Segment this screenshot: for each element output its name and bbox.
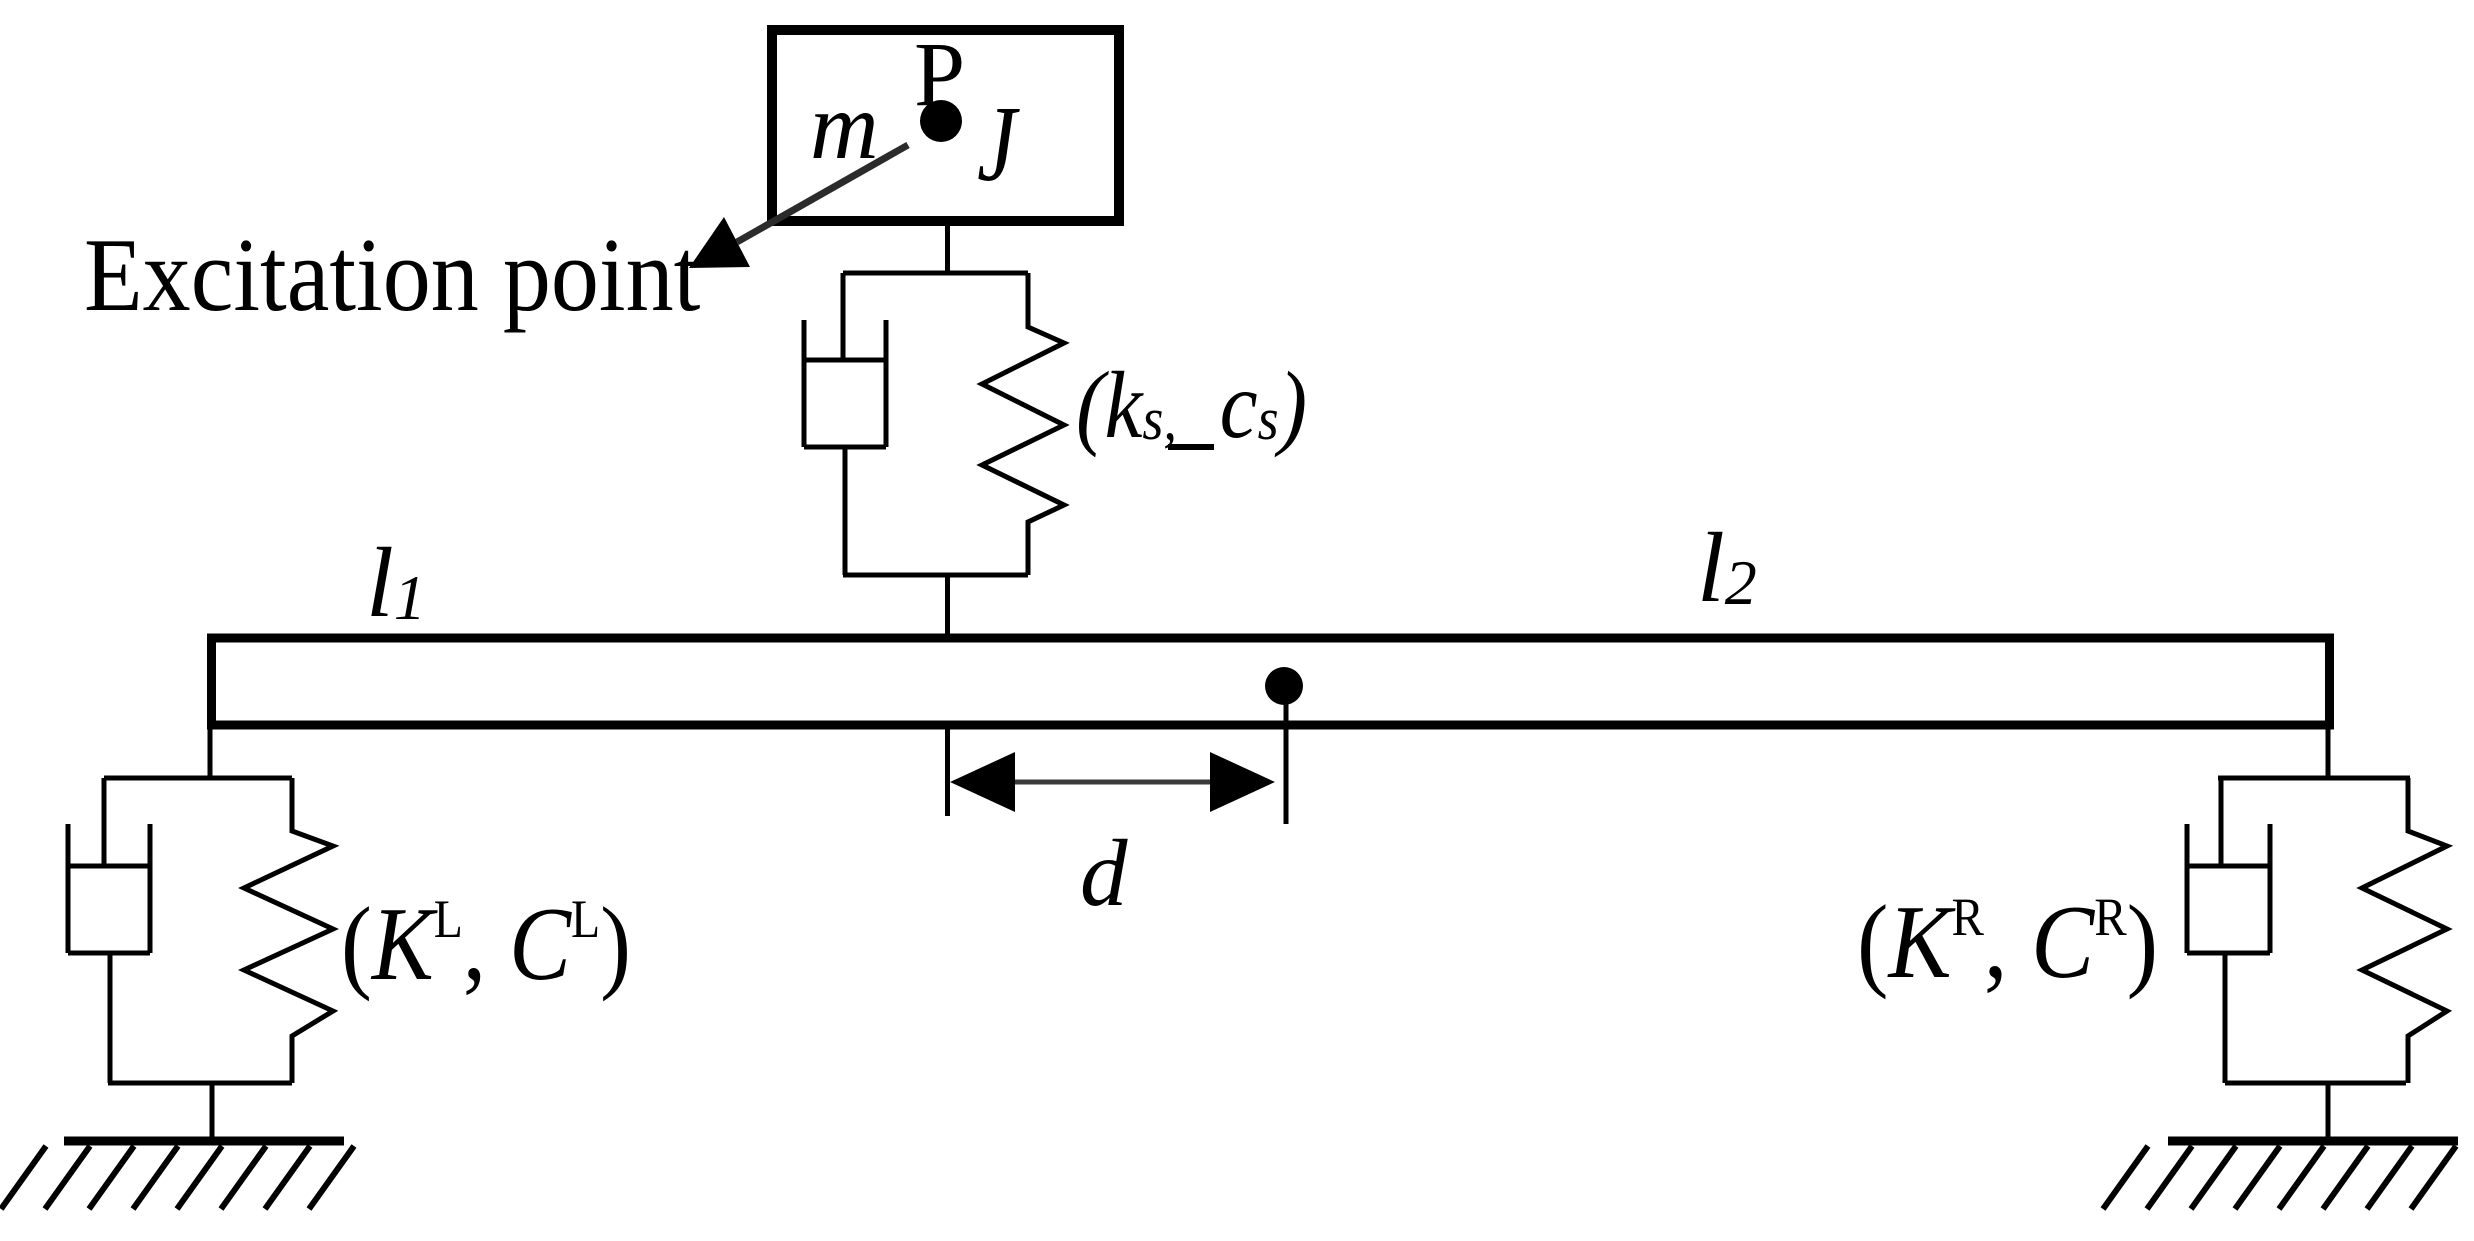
svg-text:P: P <box>914 23 965 125</box>
svg-text:m: m <box>810 73 879 179</box>
svg-text:d: d <box>1080 820 1128 926</box>
svg-text:J: J <box>977 85 1020 204</box>
svg-text:Excitation point: Excitation point <box>84 216 700 333</box>
